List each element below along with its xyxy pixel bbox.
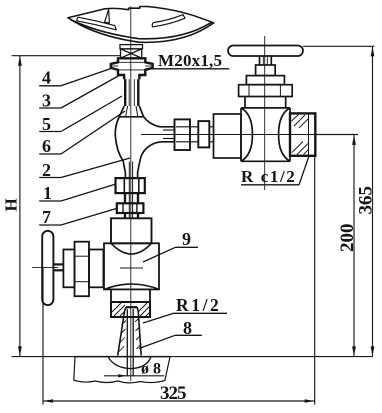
- svg-text:9: 9: [182, 229, 191, 249]
- svg-text:ø 8: ø 8: [141, 361, 161, 378]
- svg-text:3: 3: [42, 90, 51, 110]
- svg-text:200: 200: [337, 224, 358, 253]
- svg-text:R c1/2: R c1/2: [241, 167, 296, 186]
- svg-text:7: 7: [42, 207, 51, 227]
- svg-text:1: 1: [43, 183, 52, 203]
- svg-text:M20x1,5: M20x1,5: [158, 51, 222, 70]
- svg-text:325: 325: [160, 383, 187, 404]
- svg-text:4: 4: [42, 68, 51, 88]
- svg-text:365: 365: [356, 186, 377, 215]
- svg-text:H: H: [2, 198, 21, 211]
- svg-text:R1/2: R1/2: [176, 295, 221, 315]
- svg-text:6: 6: [42, 136, 51, 156]
